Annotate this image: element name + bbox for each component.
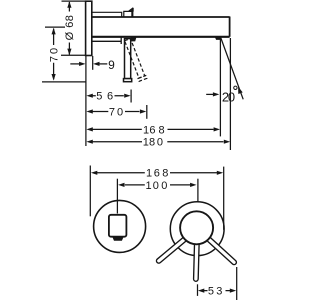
svg-text:70: 70 [48,46,60,62]
svg-text:180: 180 [143,137,163,149]
svg-text:9: 9 [108,58,115,72]
svg-text:168: 168 [143,124,165,136]
svg-text:168: 168 [146,168,168,180]
svg-text:100: 100 [146,180,168,192]
svg-text:Ø 68: Ø 68 [64,15,76,41]
svg-text:20: 20 [222,89,235,104]
